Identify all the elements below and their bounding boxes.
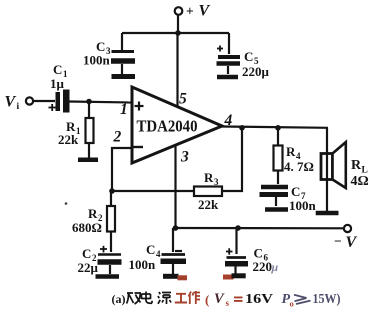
capacitor C1 <box>49 90 70 113</box>
wire top rail <box>122 32 229 34</box>
ground under C2 <box>96 274 120 279</box>
caption hanzi 工 (red) <box>175 294 187 303</box>
wire <box>65 202 68 205</box>
label C6 <box>253 246 279 275</box>
svg-text:(: ( <box>205 292 209 307</box>
svg-text:V: V <box>214 291 225 307</box>
label R4 <box>284 144 314 174</box>
node +V terminal <box>175 7 183 15</box>
label R2 <box>72 206 103 235</box>
ground under C6 <box>223 275 234 280</box>
node -V terminal <box>344 225 351 232</box>
wire pin2 <box>112 148 132 191</box>
node output feedback tap <box>239 125 245 131</box>
resistor R3 <box>194 187 222 197</box>
wire C1 to pin1 <box>70 102 133 103</box>
capacitor C6 <box>225 228 248 274</box>
wire input <box>33 100 55 102</box>
ground under C5 <box>217 75 238 80</box>
node pin3 bottom junction <box>173 225 179 231</box>
wire +V down <box>177 15 179 33</box>
wire output <box>222 127 328 128</box>
capacitor C4 <box>161 228 187 275</box>
label C3 <box>83 39 111 68</box>
capacitor C3 <box>111 33 135 74</box>
capacitor C5 <box>217 33 241 74</box>
caption hanzi 电 <box>142 292 153 304</box>
capacitor C2 <box>98 246 122 274</box>
op-amp minus input mark <box>134 146 144 148</box>
caption hanzi 双 <box>127 293 142 304</box>
wire bottom rail to -V <box>176 227 344 230</box>
svg-text:s: s <box>226 298 230 308</box>
svg-text:o: o <box>290 299 294 309</box>
label C5 <box>242 49 270 79</box>
resistor R2 <box>107 191 115 252</box>
caption geq symbol (slate) <box>294 295 311 304</box>
ground under speaker <box>316 211 339 216</box>
svg-text:15W): 15W) <box>313 291 341 306</box>
caption hanzi 作 (red) <box>189 291 201 304</box>
caption equals (red) <box>234 297 243 301</box>
wire pin3 <box>174 145 176 228</box>
node C6 tap <box>235 225 241 231</box>
label C7 <box>289 184 317 213</box>
wire output to speaker <box>326 128 328 211</box>
ground under C4 <box>163 274 179 279</box>
node R4 tap <box>275 125 281 131</box>
label +V <box>186 3 211 20</box>
svg-text:16V: 16V <box>245 292 273 307</box>
ground under C7 <box>265 207 288 212</box>
label R1 <box>58 119 81 147</box>
label Vi <box>5 94 20 113</box>
capacitor C7 <box>260 187 289 206</box>
label R3 <box>198 170 219 212</box>
node junction top rail <box>175 30 181 36</box>
node input junction <box>86 99 92 105</box>
label RL <box>351 158 369 189</box>
resistor R4 <box>274 128 283 184</box>
label C1 <box>50 62 68 91</box>
caption hanzi 源 <box>158 292 171 304</box>
resistor R1 <box>86 102 94 159</box>
speaker RL <box>321 142 346 188</box>
ground under C3 <box>112 74 136 79</box>
label C2 <box>78 246 99 275</box>
wire feedback horizontal <box>112 190 194 192</box>
ground under R1 <box>78 158 98 163</box>
node feedback junction <box>109 188 115 194</box>
label C4 <box>129 242 162 272</box>
node Vi input terminal <box>26 97 33 104</box>
op-amp U1 TDA2040 <box>132 87 222 163</box>
op-amp plus input mark <box>135 102 144 111</box>
wire pin5 <box>176 33 178 106</box>
svg-text:(a): (a) <box>112 292 126 306</box>
label -V <box>334 234 358 252</box>
wire R3 to output <box>222 128 242 192</box>
